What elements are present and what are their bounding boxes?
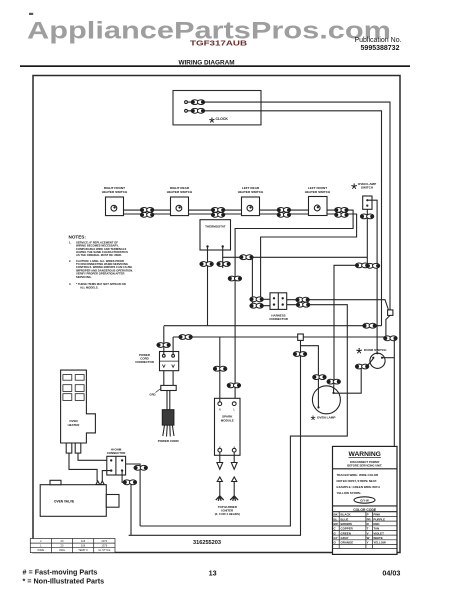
svg-text:*: * xyxy=(311,412,316,427)
rail-2 end connector xyxy=(384,336,397,341)
notes block xyxy=(69,234,134,289)
thermostat left wire down to rail xyxy=(207,247,209,326)
svg-text:POWER CORD: POWER CORD xyxy=(158,439,180,443)
clock label xyxy=(209,114,228,131)
heater switch S4 xyxy=(309,197,328,216)
svg-text:WIRING DIAGRAM: WIRING DIAGRAM xyxy=(178,59,234,66)
wire rail1 down to connector left pin xyxy=(163,326,165,354)
power cord strain relief xyxy=(164,371,173,386)
wire from oven lamp switch down xyxy=(366,209,368,265)
bottom-left wire gauge table xyxy=(30,539,115,553)
svg-text:AS THE ORIGINAL MUST BE USED.: AS THE ORIGINAL MUST BE USED. xyxy=(76,253,122,257)
wire lamp switch top pin to door switch xyxy=(367,200,377,353)
svg-text:V: V xyxy=(367,531,369,535)
svg-text:115: 115 xyxy=(81,539,86,543)
wire down right side to warning box xyxy=(393,338,395,446)
svg-text:UL STYLE: UL STYLE xyxy=(98,548,110,552)
svg-text:GRD.: GRD. xyxy=(150,393,157,397)
svg-text:TAN: TAN xyxy=(373,527,379,531)
spark module N feed wire xyxy=(219,337,221,402)
spark module box xyxy=(215,398,241,455)
svg-text:CONNECTOR: CONNECTOR xyxy=(135,360,154,364)
svg-text:GREEN: GREEN xyxy=(341,531,351,535)
wire rail2 up from connector right pin xyxy=(172,337,174,354)
svg-text:WHITE: WHITE xyxy=(373,536,382,540)
connector pair S3-S4 xyxy=(277,208,290,213)
power cord plug xyxy=(167,391,170,410)
svg-text:OVEN VALVE: OVEN VALVE xyxy=(54,500,74,504)
harness connector box xyxy=(270,293,287,310)
svg-text:3.: 3. xyxy=(69,282,72,286)
switch bus wires xyxy=(124,210,309,214)
clock wire lower xyxy=(188,111,382,326)
harness left wires with connectors xyxy=(261,298,270,300)
door switch right wire xyxy=(382,357,394,359)
connector on clock wire lower xyxy=(191,108,204,113)
branch to oven lamp left xyxy=(301,346,319,380)
heater switch S1 xyxy=(106,197,124,216)
svg-text:PURPLE: PURPLE xyxy=(373,517,385,521)
grd label xyxy=(150,393,157,397)
svg-text:* = Non-Illustrated Parts: * = Non-Illustrated Parts xyxy=(23,577,105,586)
branch to harness connector lower pin xyxy=(252,257,270,305)
svg-text:SERVICING.: SERVICING. xyxy=(76,275,92,279)
heater right wire to hi-ohm connector xyxy=(78,453,107,460)
svg-text:* THESE ITEMS MAY NOT APPEAR O: * THESE ITEMS MAY NOT APPEAR ON xyxy=(76,282,126,286)
splice junction square xyxy=(388,310,393,316)
igniter electrodes xyxy=(220,452,234,462)
svg-text:T: T xyxy=(367,527,369,531)
svg-text:CLOCK: CLOCK xyxy=(216,117,229,121)
warning box xyxy=(333,446,398,554)
svg-text:GRAY: GRAY xyxy=(341,536,349,540)
clock wire upper xyxy=(188,102,391,310)
oven lamp switch xyxy=(363,196,372,209)
svg-text:MODULE: MODULE xyxy=(221,418,234,422)
oven lamp xyxy=(312,386,340,414)
svg-text:YELLOW: YELLOW xyxy=(373,541,386,545)
wire from loop rail up xyxy=(139,470,141,526)
svg-text:TGF317AUB: TGF317AUB xyxy=(190,39,247,48)
svg-text:BL: BL xyxy=(334,517,338,521)
svg-text:CONNECTOR: CONNECTOR xyxy=(107,451,126,455)
svg-text:AWG: AWG xyxy=(59,548,65,552)
main diagram border xyxy=(33,76,400,553)
svg-text:2372: 2372 xyxy=(101,539,107,543)
svg-text:1.: 1. xyxy=(69,240,72,244)
spark module L feed connector xyxy=(227,383,240,388)
svg-text:5995388732: 5995388732 xyxy=(361,45,400,52)
door switch left wire to lamp xyxy=(334,359,373,394)
svg-text:N: N xyxy=(219,407,221,411)
harness right lower wire to big loop xyxy=(140,305,347,526)
svg-text:EXAMPLE: GREEN WIRE WITH: EXAMPLE: GREEN WIRE WITH xyxy=(337,485,380,489)
svg-text:TRACER WIRE: WIRE COLOR: TRACER WIRE: WIRE COLOR xyxy=(337,473,379,477)
connector pair S2-S3 xyxy=(211,208,224,213)
svg-text:ALL MODELS.: ALL MODELS. xyxy=(80,286,99,290)
svg-text:HEATER SWITCH: HEATER SWITCH xyxy=(305,190,331,194)
svg-text:COLOR CODE: COLOR CODE xyxy=(353,508,377,512)
svg-text:(2, 3 OR 4 HEADS): (2, 3 OR 4 HEADS) xyxy=(215,512,240,516)
svg-text:Publication No.: Publication No. xyxy=(354,37,401,44)
harness right upper wire to splice xyxy=(287,300,389,310)
svg-text:13: 13 xyxy=(209,569,217,578)
svg-text:GY: GY xyxy=(334,536,338,540)
connector under oven lamp switch xyxy=(360,214,373,219)
svg-text:DISCONNECT POWER: DISCONNECT POWER xyxy=(350,460,379,464)
heater switch S3 xyxy=(242,197,260,216)
junction block on rail 2 xyxy=(298,334,304,340)
part number 316255203 xyxy=(193,540,221,546)
svg-text:CONNECTOR: CONNECTOR xyxy=(269,317,288,321)
svg-text:NOTES:: NOTES: xyxy=(69,234,87,239)
svg-text:2.: 2. xyxy=(69,259,72,263)
door switch xyxy=(370,353,385,368)
svg-text:*: * xyxy=(356,346,362,363)
svg-text:PINK: PINK xyxy=(373,513,381,517)
heater left wire to oven valve xyxy=(69,453,97,481)
connector pair S1-S2 xyxy=(140,208,153,213)
svg-text:W: W xyxy=(367,536,370,540)
svg-text:ORANGE: ORANGE xyxy=(341,541,354,545)
power cord connector box xyxy=(160,352,179,371)
svg-text:RED: RED xyxy=(373,522,379,526)
svg-text:WIRE: WIRE xyxy=(37,548,44,552)
svg-text:BEFORE SERVICING UNIT.: BEFORE SERVICING UNIT. xyxy=(347,463,382,467)
svg-text:NOTED FIRST, STRIPE NEXT.: NOTED FIRST, STRIPE NEXT. xyxy=(337,479,378,483)
svg-text:316255203: 316255203 xyxy=(193,540,221,546)
valve terminals xyxy=(96,481,104,485)
lamp circuit: wire from lamp switch to oven lamp xyxy=(334,265,367,379)
svg-text:1379: 1379 xyxy=(101,544,107,548)
hi-ohm lower-left pin wire to valve xyxy=(102,471,111,482)
power rail 1 (y=325.7) xyxy=(164,325,382,327)
svg-text:BROWN: BROWN xyxy=(341,522,352,526)
thermostat box xyxy=(200,220,231,250)
connector on clock wire upper xyxy=(191,100,204,105)
svg-text:Y: Y xyxy=(367,541,369,545)
svg-text:G/Y-W: G/Y-W xyxy=(360,498,369,502)
svg-text:VIOLET: VIOLET xyxy=(373,531,384,535)
power rail 2 (y=337) xyxy=(173,336,384,338)
spark module L wire connector xyxy=(228,276,241,281)
svg-text:HEATER SWITCH: HEATER SWITCH xyxy=(102,190,128,194)
svg-text:*: * xyxy=(209,114,215,131)
igniter tips xyxy=(216,496,238,501)
svg-text:# = Fast-moving Parts: # = Fast-moving Parts xyxy=(23,568,98,577)
svg-text:COPPER: COPPER xyxy=(341,527,354,531)
heater switch S2 xyxy=(171,197,189,216)
svg-text:OVEN LAMP: OVEN LAMP xyxy=(317,415,335,419)
svg-text:THERMOSTAT: THERMOSTAT xyxy=(205,225,226,229)
svg-text:WARNING: WARNING xyxy=(349,451,381,458)
svg-text:DOOR SWITCH: DOOR SWITCH xyxy=(364,348,387,352)
svg-text:BLUE: BLUE xyxy=(341,517,349,521)
svg-text:P: P xyxy=(367,513,369,517)
hi-ohm right top wire to loop xyxy=(126,464,141,470)
clock box xyxy=(173,91,261,125)
svg-text:HEATER SWITCH: HEATER SWITCH xyxy=(238,190,264,194)
svg-text:04/03: 04/03 xyxy=(382,569,400,578)
svg-text:YELLOW STRIPE.: YELLOW STRIPE. xyxy=(337,491,362,495)
thermostat right wire to lamp-switch node xyxy=(223,247,368,257)
switch bus loop lower (to harness connector) xyxy=(261,214,357,299)
hi-ohm connector box xyxy=(107,456,126,475)
header rule xyxy=(20,65,410,67)
oven valve box xyxy=(40,485,106,517)
junction branch down from rail 2 xyxy=(129,340,301,535)
switch bus loop upper (to spark module) xyxy=(235,210,353,398)
hi-ohm right bottom wire down xyxy=(122,471,131,535)
svg-text:HEATER SWITCH: HEATER SWITCH xyxy=(167,190,193,194)
connector pair after S4 xyxy=(335,208,348,213)
oven heater (igniter) xyxy=(61,370,96,443)
svg-text:*: * xyxy=(351,181,357,198)
svg-text:106: 106 xyxy=(81,544,86,548)
svg-text:BLACK: BLACK xyxy=(341,513,352,517)
svg-text:TEMP C: TEMP C xyxy=(78,548,88,552)
svg-text:SWITCH: SWITCH xyxy=(361,186,374,190)
svg-text:HEATER: HEATER xyxy=(68,423,81,427)
